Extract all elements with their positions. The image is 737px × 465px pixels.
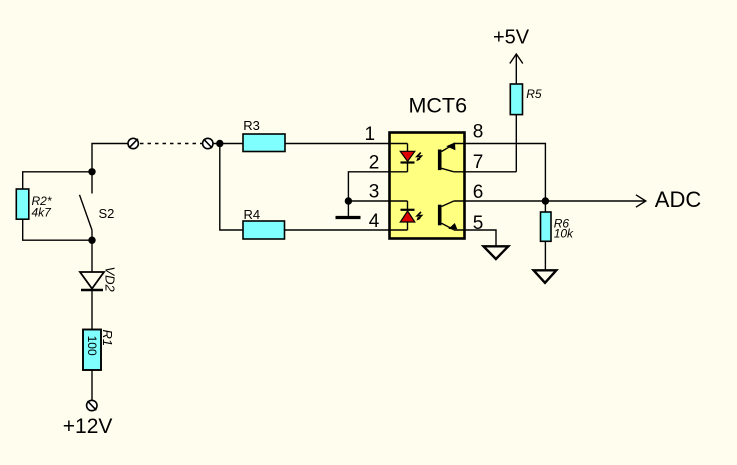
wire: R4 to chip pin 4 — [285, 229, 408, 231]
light bolt D2 — [417, 212, 421, 219]
transistor Q2 base bar — [438, 205, 442, 226]
svg-text:S2: S2 — [99, 206, 115, 221]
svg-text:6: 6 — [473, 182, 484, 203]
wire: pin 5 to ground — [454, 230, 496, 246]
svg-text:R5: R5 — [526, 87, 542, 101]
optocoupler U1 MCT6 body — [390, 133, 465, 239]
svg-text:+12V: +12V — [63, 415, 113, 438]
ground (pin3 bar) — [336, 216, 361, 219]
svg-text:100: 100 — [85, 336, 99, 356]
connector X2 — [203, 138, 213, 148]
wire: S2 bottom stub — [91, 230, 93, 240]
svg-text:2: 2 — [369, 152, 380, 173]
diode VD2 — [80, 272, 104, 290]
LED D2 (bottom) — [400, 210, 415, 222]
junction dot pin3 ground — [345, 197, 352, 204]
wire: dashed link between connectors — [140, 143, 202, 145]
wire: R6 bottom to ground — [544, 241, 546, 270]
connector X3 (+12V) — [87, 400, 97, 410]
wire: pin 3 horizontal — [348, 200, 407, 202]
wire: top-left horizontal to connector X1 — [92, 144, 128, 172]
svg-text:R3: R3 — [243, 118, 260, 133]
wire: R1 to connector X3 — [91, 370, 93, 400]
transistor Q1 emitter line — [442, 144, 454, 151]
svg-text:3: 3 — [369, 181, 380, 202]
transistor Q1 base bar — [438, 150, 442, 171]
wire: pin3 internal drop to LED2 — [407, 201, 409, 209]
transistor Q1 emitter arrow — [446, 142, 455, 150]
LED D1 (top) — [400, 151, 415, 162]
resistor R1 — [83, 330, 101, 371]
svg-text:+5V: +5V — [493, 27, 530, 49]
wire: node A vertical down to R4 row — [220, 144, 243, 231]
wire: node D to R6 — [544, 201, 546, 212]
node A junction dot — [216, 140, 223, 147]
wire: S2 blade — [80, 195, 93, 231]
svg-text:4k7: 4k7 — [32, 205, 53, 219]
node C junction dot — [88, 237, 95, 244]
wire: connector X2 to R3 — [213, 143, 243, 145]
connector X1 — [128, 138, 138, 148]
ADC arrowhead — [636, 195, 646, 207]
wire: pin 7 horizontal — [454, 171, 517, 173]
svg-text:MCT6: MCT6 — [409, 93, 468, 117]
resistor R6 — [541, 212, 552, 241]
wire: R3 to chip pin 1 — [285, 143, 408, 145]
node D junction dot — [542, 197, 549, 204]
svg-text:VD2: VD2 — [103, 267, 118, 293]
wire: pin1 internal drop to LED1 — [407, 144, 409, 152]
svg-text:R4: R4 — [244, 207, 261, 222]
+5V arrowhead — [510, 54, 523, 64]
wire: LED2 anode to pin4 — [407, 222, 409, 230]
wire: +5V arrow stem to R5 — [515, 54, 517, 84]
transistor Q2 emitter line — [442, 223, 454, 230]
svg-text:5: 5 — [473, 213, 484, 234]
U1 internal wires — [408, 144, 454, 231]
ground (R6 triangle) — [534, 270, 557, 283]
wire: LED1 cathode to pin2 — [407, 162, 409, 171]
wire: left branch from node B to R2 — [23, 172, 92, 189]
svg-text:8: 8 — [473, 121, 484, 142]
transistor Q2 emitter arrow — [448, 223, 457, 229]
light bolt D1 — [417, 153, 421, 160]
resistor R4 — [243, 221, 285, 239]
svg-text:7: 7 — [473, 152, 484, 173]
wire: R2 bottom to node C — [23, 219, 92, 240]
wire: VD2 to R1 — [91, 290, 93, 330]
ground (pin5 triangle) — [484, 246, 509, 259]
svg-text:R1: R1 — [100, 330, 115, 347]
resistor R5 — [510, 84, 522, 115]
svg-text:ADC: ADC — [655, 187, 702, 212]
wire: pin 2 to ground stub — [348, 172, 407, 217]
resistor R2 — [16, 189, 29, 219]
resistor R3 — [243, 134, 285, 152]
wire: R5 bottom down to pin 7 wire — [515, 115, 517, 172]
svg-text:4: 4 — [369, 211, 380, 232]
wire: S2 top stub — [91, 172, 93, 194]
svg-text:10k: 10k — [554, 227, 574, 241]
wire: pin 6 to ADC — [454, 200, 646, 202]
node B junction dot — [88, 168, 95, 175]
wire: pin 8 to corner and down to node D — [454, 144, 546, 202]
svg-text:1: 1 — [365, 124, 376, 145]
wire: node C down to VD2 — [91, 240, 93, 272]
transistor Q1 collector line — [442, 168, 454, 172]
transistor Q2 collector line — [442, 201, 454, 207]
